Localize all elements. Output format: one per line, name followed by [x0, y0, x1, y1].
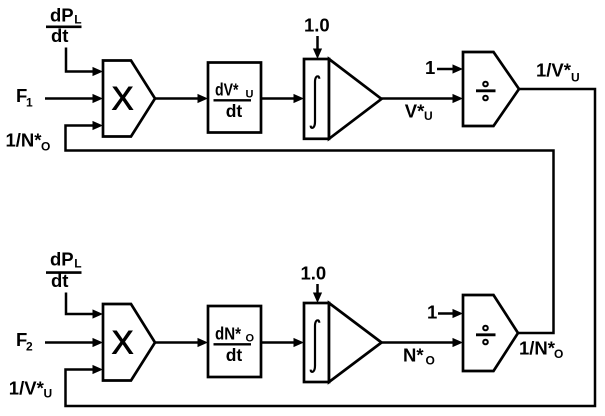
svg-text:1/V*: 1/V*: [9, 378, 45, 399]
svg-text:1/N*: 1/N*: [6, 130, 43, 151]
svg-text:L: L: [74, 256, 81, 270]
svg-text:L: L: [74, 12, 81, 26]
wire: F2 into multiplier X2 middle input: [45, 338, 103, 347]
wire: 1 into divider D2 top input: [438, 309, 463, 318]
svg-text:1: 1: [425, 57, 435, 78]
label N*_O: [403, 345, 435, 368]
label 1/N*_O (bottom divider output): [519, 338, 563, 362]
label 1/V*_U (bottom-left feedback input): [9, 378, 52, 401]
wire: dP_L/dt into multiplier X2 top input: [66, 293, 103, 319]
svg-text:1: 1: [427, 302, 437, 323]
multiplier X2: [103, 304, 155, 381]
wire: integrator I2 output N*_O to divider D2: [382, 338, 464, 347]
svg-text:O: O: [426, 353, 435, 367]
block dN*_O/dt: [208, 306, 261, 377]
svg-text:N*: N*: [403, 345, 424, 366]
svg-text:U: U: [424, 109, 433, 123]
svg-text:1: 1: [26, 95, 33, 109]
label 1/V*_U (top divider output): [536, 60, 580, 85]
block dV*_U/dt: [208, 63, 261, 133]
svg-text:O: O: [554, 347, 563, 361]
svg-text:1/N*: 1/N*: [519, 338, 556, 359]
wire: divider D1 output feedback down right side and into multiplier X2 bottom input: [66, 89, 596, 406]
svg-text:O: O: [41, 139, 50, 153]
label dP_L/dt (top input): [46, 5, 82, 47]
svg-text:X: X: [112, 325, 134, 361]
svg-text:1.0: 1.0: [304, 15, 330, 36]
wire: dN*_O/dt output to integrator I2: [261, 338, 304, 347]
svg-text:dP: dP: [50, 5, 74, 26]
wire: 1.0 into top of integrator I2: [313, 284, 322, 303]
label F2: [16, 329, 33, 353]
divider D2: [463, 295, 518, 371]
svg-text:1.0: 1.0: [301, 263, 327, 284]
svg-text:dt: dt: [51, 270, 68, 291]
label dP_L/dt (bottom input): [46, 249, 82, 292]
svg-text:dN*: dN*: [215, 324, 241, 344]
wire: F1 into multiplier X1 middle input: [45, 94, 103, 103]
integrator I1 (rect with integral sign and output triangle): [304, 59, 382, 139]
svg-text:dt: dt: [226, 101, 243, 121]
wire: dV*_U/dt output to integrator I1: [261, 94, 304, 103]
svg-text:U: U: [44, 387, 53, 401]
integrator I2 (rect with integral sign and output triangle): [304, 303, 382, 382]
svg-text:O: O: [246, 333, 255, 345]
svg-text:X: X: [112, 81, 134, 117]
svg-text:dP: dP: [50, 249, 74, 270]
wire: integrator I1 output V*_U to divider D1: [382, 94, 464, 103]
svg-text:2: 2: [26, 339, 33, 353]
wire: 1.0 into top of integrator I1: [313, 36, 322, 59]
svg-text:dt: dt: [226, 345, 243, 365]
label F1: [16, 85, 33, 109]
wire: multiplier X1 output to dV*_U/dt block: [155, 94, 208, 103]
label V*_U: [405, 101, 433, 124]
svg-text:dV*: dV*: [215, 80, 239, 100]
wire: dP_L/dt into multiplier X1 top input: [66, 48, 103, 77]
svg-text:V*: V*: [405, 101, 425, 122]
svg-text:U: U: [571, 71, 580, 85]
svg-text:U: U: [246, 89, 254, 101]
multiplier X1: [103, 61, 155, 137]
wire: 1 into divider D1 top input: [437, 64, 463, 73]
divider D1: [463, 52, 519, 126]
wire: feedback from divider D2 output up and into multiplier X1 bottom input: [66, 121, 554, 333]
svg-text:dt: dt: [51, 25, 68, 46]
label 1/N*_O (top-left feedback input): [6, 130, 51, 154]
wire: multiplier X2 output to dN*_O/dt block: [155, 338, 208, 347]
svg-text:1/V*: 1/V*: [536, 60, 572, 81]
